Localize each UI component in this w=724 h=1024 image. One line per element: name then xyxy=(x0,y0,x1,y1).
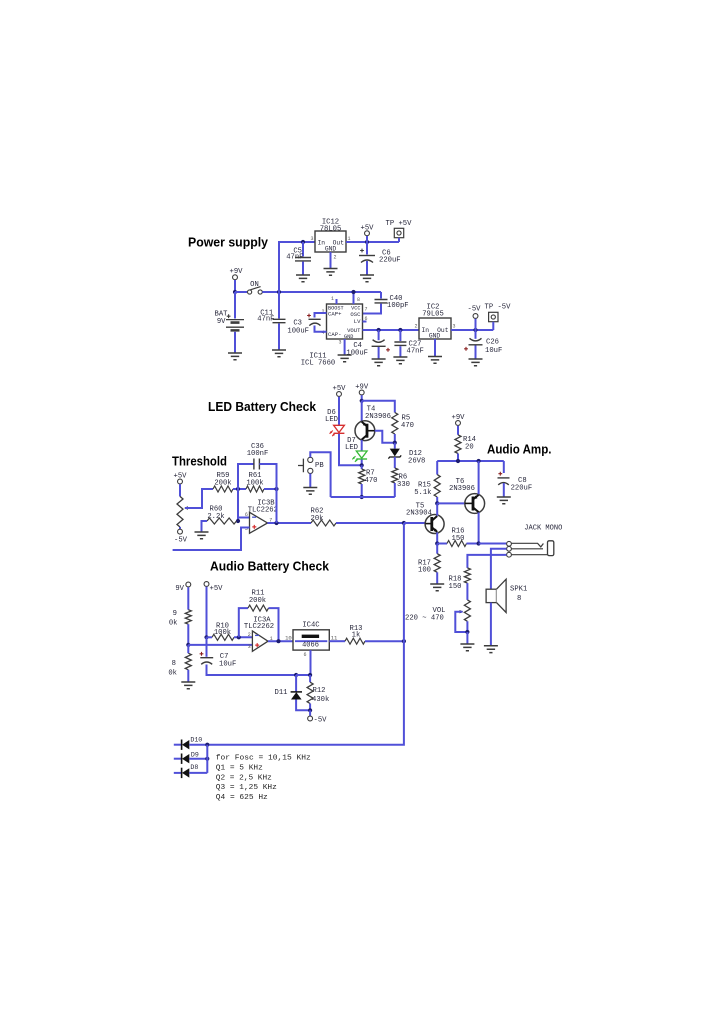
node R60 junction xyxy=(236,519,240,523)
wire +5V down to R10 node xyxy=(206,587,208,638)
wire inverting node to IC3B xyxy=(237,489,239,521)
svg-text:D9: D9 xyxy=(191,752,199,759)
wire node to jack tip xyxy=(479,543,507,545)
ground SPK1 xyxy=(484,646,498,653)
svg-text:9V: 9V xyxy=(217,318,226,326)
svg-text:0k: 0k xyxy=(169,620,178,628)
node C4 junction xyxy=(377,328,381,332)
node R12/D11 bottom xyxy=(308,708,312,712)
wire R62 to T5 base node xyxy=(336,522,404,524)
ground VOL pot xyxy=(460,644,474,651)
node R10/R11 feedback xyxy=(237,635,241,639)
ground battery xyxy=(228,353,242,360)
svg-text:C26: C26 xyxy=(486,339,499,347)
resistor R6 330 xyxy=(392,468,398,483)
svg-text:6: 6 xyxy=(365,316,368,322)
svg-text:6: 6 xyxy=(303,652,306,658)
svg-text:C3: C3 xyxy=(293,320,302,328)
wire D7 to node xyxy=(361,460,363,466)
svg-text:JACK MONO: JACK MONO xyxy=(524,525,562,533)
wire IC2 Out to -5V node xyxy=(451,329,493,331)
wire IC11 VOUT rail to IC2 In xyxy=(363,329,420,331)
ground C27 xyxy=(393,357,407,364)
svg-text:79L05: 79L05 xyxy=(422,311,444,319)
resistor R15 5.1k xyxy=(436,461,438,475)
wire feedback C36/R61 to output xyxy=(276,489,278,523)
wire D6 to node xyxy=(339,434,362,466)
svg-text:2: 2 xyxy=(248,632,251,638)
svg-text:Power supply: Power supply xyxy=(188,235,269,250)
pin 1 IC11 BOOST stub xyxy=(336,299,338,304)
wire IC3A output to IC4C xyxy=(268,640,293,642)
svg-text:LED Battery Check: LED Battery Check xyxy=(208,399,317,414)
wire PB to ground xyxy=(309,474,311,488)
zener diode D12 26V8 xyxy=(394,443,396,449)
svg-text:200k: 200k xyxy=(249,597,266,605)
wire riser to IC12 input xyxy=(279,242,315,292)
wire audio bus vertical xyxy=(207,523,404,745)
node R5/D12/T4-base xyxy=(393,441,397,445)
node pot bottom xyxy=(465,630,469,634)
resistor R7 470 xyxy=(361,465,363,469)
wire T5 collector to node xyxy=(436,503,438,515)
svg-text:470: 470 xyxy=(365,477,378,485)
wire D12 to R6 xyxy=(394,457,396,468)
svg-text:-5V: -5V xyxy=(174,537,188,545)
svg-text:3: 3 xyxy=(310,236,313,242)
svg-text:4066: 4066 xyxy=(302,642,319,650)
ground C4 xyxy=(372,359,386,366)
svg-text:CAP-: CAP- xyxy=(328,331,341,338)
svg-text:10: 10 xyxy=(285,634,292,641)
ground C6 xyxy=(360,275,374,282)
node R15/T5 collector/T6 base xyxy=(435,501,439,505)
capacitor C7 10uF xyxy=(206,637,208,657)
node T6 collector/R16/jack xyxy=(477,541,481,545)
svg-text:20: 20 xyxy=(465,444,474,452)
svg-text:100pF: 100pF xyxy=(387,302,409,310)
svg-text:220 ~ 470: 220 ~ 470 xyxy=(405,615,444,623)
svg-text:Audio Battery Check: Audio Battery Check xyxy=(210,559,330,574)
capacitor C5 47nF xyxy=(302,242,304,257)
wire jack sleeve to R18 xyxy=(467,555,506,568)
node T6 emitter/rail xyxy=(477,459,481,463)
node -5V junction xyxy=(473,328,477,332)
svg-text:2: 2 xyxy=(414,324,417,330)
svg-text:8: 8 xyxy=(172,660,176,668)
wire node to T6 base xyxy=(437,502,465,504)
svg-text:150: 150 xyxy=(449,583,462,591)
charge-pump IC11 ICL 7660 xyxy=(327,304,363,339)
resistor R14 20 xyxy=(457,426,459,435)
svg-text:GND: GND xyxy=(429,333,441,340)
node R59/R61/C36 xyxy=(236,487,240,491)
wire C40 to IC11 OSC pin 7 xyxy=(363,304,382,314)
svg-text:26V8: 26V8 xyxy=(408,458,425,466)
capacitor C27 47nF xyxy=(399,330,401,341)
wire IC2 GND to ground xyxy=(434,339,436,356)
svg-text:2.2k: 2.2k xyxy=(207,513,224,521)
wire T5 emitter down xyxy=(436,532,438,543)
ground IC12 xyxy=(324,269,338,276)
svg-text:CAP+: CAP+ xyxy=(328,311,342,318)
wire IC4C control down xyxy=(310,650,312,675)
svg-text:2N3906: 2N3906 xyxy=(449,485,475,493)
svg-text:R12: R12 xyxy=(313,687,326,695)
wire jack middle to speaker xyxy=(491,549,507,589)
capacitor C4 100uF xyxy=(378,330,380,340)
svg-text:3: 3 xyxy=(338,340,341,346)
svg-text:330: 330 xyxy=(397,481,410,489)
svg-text:470: 470 xyxy=(401,422,414,430)
svg-text:Q4 = 625 Hz: Q4 = 625 Hz xyxy=(216,794,268,802)
wire R13 to audio bus xyxy=(365,640,404,642)
svg-text:Q3 = 1,25 KHz: Q3 = 1,25 KHz xyxy=(216,784,277,792)
pin 6 IC11 LV stub xyxy=(363,321,367,323)
node bus VCC junction xyxy=(351,290,355,294)
svg-text:100k: 100k xyxy=(246,479,263,487)
potentiometer threshold xyxy=(179,484,181,496)
wire IC11 CAP+ to C3 xyxy=(315,313,327,318)
svg-text:9V: 9V xyxy=(175,585,184,593)
svg-text:220uF: 220uF xyxy=(379,257,401,265)
wire bottom bus PB to R6 xyxy=(331,496,395,498)
battery BAT 9V xyxy=(234,292,236,319)
wire divider to IC3A non-inverting xyxy=(188,644,252,646)
svg-text:100: 100 xyxy=(418,567,431,575)
wire pot to ground xyxy=(466,632,468,644)
node R13/audio bus xyxy=(402,639,406,643)
node +5V rail junction xyxy=(365,240,369,244)
wire bus: battery to switch xyxy=(235,291,247,293)
svg-text:7: 7 xyxy=(365,307,368,313)
ground PB xyxy=(303,488,317,495)
node divider mid xyxy=(186,643,190,647)
terminal +5V (audio battery check) xyxy=(204,582,209,587)
svg-text:220uF: 220uF xyxy=(511,485,533,493)
svg-text:TP +5V: TP +5V xyxy=(386,220,413,228)
wire IC3B non-inverting input stub xyxy=(173,528,250,551)
svg-text:430k: 430k xyxy=(312,696,329,704)
node R10/C7 tee xyxy=(204,635,208,639)
svg-text:5.1k: 5.1k xyxy=(414,489,431,497)
svg-text:PB: PB xyxy=(315,462,324,470)
svg-text:47nF: 47nF xyxy=(407,348,424,356)
ground C11 xyxy=(272,350,286,357)
svg-text:2N3906: 2N3906 xyxy=(365,413,391,421)
wire C7 to negative rail xyxy=(207,665,297,676)
wire C3 to IC11 CAP- xyxy=(315,326,327,332)
capacitor C26 10uF xyxy=(475,330,477,339)
svg-text:ICL 7660: ICL 7660 xyxy=(301,360,336,368)
wire +9V node to T4 emitter xyxy=(361,401,363,422)
svg-text:-5V: -5V xyxy=(314,717,328,725)
node R7 bottom bus xyxy=(360,495,364,499)
node T5 emitter/R16/R17 xyxy=(435,541,439,545)
svg-text:2: 2 xyxy=(334,255,337,261)
wire +9V rail (audio amp) xyxy=(437,460,504,462)
svg-text:-5V: -5V xyxy=(468,306,482,314)
node battery/bus junction xyxy=(233,290,237,294)
svg-text:LV: LV xyxy=(354,318,361,325)
wire bus: switch to C40 corner xyxy=(262,291,381,293)
svg-text:6: 6 xyxy=(245,512,248,518)
node D6/D7/R7 xyxy=(360,463,364,467)
svg-text:Threshold: Threshold xyxy=(172,454,227,469)
svg-text:Q1 = 5 KHz: Q1 = 5 KHz xyxy=(216,764,263,772)
wire rail to R12 top xyxy=(296,674,310,676)
svg-text:GND: GND xyxy=(325,246,337,253)
svg-text:100uF: 100uF xyxy=(346,350,368,358)
wire node to T5 base xyxy=(404,522,426,524)
ground IC2 xyxy=(428,357,442,364)
node D11 tee xyxy=(294,673,298,677)
node C27 junction xyxy=(398,328,402,332)
pin 8 IC11 VCC wire to bus xyxy=(353,292,355,304)
svg-text:10uF: 10uF xyxy=(485,347,502,355)
capacitor C6 220uF xyxy=(366,242,368,255)
ground R17 xyxy=(430,584,444,591)
svg-text:10uF: 10uF xyxy=(219,661,236,669)
wire +9V to rail node xyxy=(361,395,363,401)
ground C5 xyxy=(296,275,310,282)
node R61/C36 right xyxy=(274,487,278,491)
ground R60 xyxy=(195,532,209,539)
svg-text:D10: D10 xyxy=(190,737,202,744)
svg-text:3: 3 xyxy=(248,644,251,650)
svg-text:LED: LED xyxy=(325,416,338,424)
svg-text:8: 8 xyxy=(517,595,521,603)
svg-text:8: 8 xyxy=(357,297,360,303)
svg-text:3: 3 xyxy=(453,324,456,330)
svg-text:Q2 = 2,5 KHz: Q2 = 2,5 KHz xyxy=(216,774,272,782)
capacitor C11 47nF xyxy=(278,292,280,319)
svg-text:D11: D11 xyxy=(275,689,288,697)
svg-text:47nF: 47nF xyxy=(257,315,274,323)
ground divider xyxy=(181,682,195,689)
svg-text:+5V: +5V xyxy=(210,585,224,593)
ground C8 xyxy=(497,497,511,504)
node feedback/output xyxy=(274,521,278,525)
node C5 junction xyxy=(301,240,305,244)
svg-text:SPK1: SPK1 xyxy=(510,586,527,594)
svg-text:for Fosc = 10,15 KHz: for Fosc = 10,15 KHz xyxy=(216,755,311,763)
svg-text:1: 1 xyxy=(331,296,334,302)
node R14/rail xyxy=(456,459,460,463)
wire T4 collector to D7 xyxy=(361,440,363,451)
svg-text:TP -5V: TP -5V xyxy=(485,304,512,312)
capacitor C8 220uF xyxy=(503,461,505,473)
node R12 top xyxy=(308,673,312,677)
wire rail to R5 xyxy=(362,401,395,413)
wire IC3B output to R62 xyxy=(268,522,312,524)
capacitor C40 100pF xyxy=(380,292,382,299)
resistor R17 100 xyxy=(436,544,438,554)
wire IC12 GND to ground xyxy=(330,252,332,268)
wire speaker to ground xyxy=(490,603,492,646)
svg-text:VOUT: VOUT xyxy=(347,327,361,334)
wire +5V to D6 xyxy=(338,397,340,426)
svg-text:D8: D8 xyxy=(190,764,198,771)
node bus / C11+IC12 riser xyxy=(277,290,281,294)
svg-text:TLC2262: TLC2262 xyxy=(244,623,274,631)
node D9/bus xyxy=(205,757,209,761)
node audio bus top xyxy=(402,521,406,525)
wire diode bus vertical xyxy=(206,745,208,773)
wire T6 collector down xyxy=(478,512,480,543)
svg-text:100nF: 100nF xyxy=(247,450,269,458)
ground IC11 xyxy=(338,355,352,362)
svg-text:200k: 200k xyxy=(214,479,231,487)
svg-text:0k: 0k xyxy=(168,670,177,678)
ground C26 xyxy=(469,359,483,366)
wire IC12 Out to +5V node xyxy=(346,241,399,243)
wire T4 base to R5/D12 node xyxy=(375,431,395,443)
svg-text:9: 9 xyxy=(173,610,177,618)
svg-text:IC4C: IC4C xyxy=(302,621,320,629)
wire IC11 GND to ground xyxy=(344,339,346,355)
wire +9V terminal to bus xyxy=(234,280,236,292)
node IC3A output/feedback xyxy=(276,639,280,643)
wire pot wiper to R59 xyxy=(185,489,213,508)
terminal -5V (audio battery check) xyxy=(309,710,311,716)
wire T6 emitter to rail xyxy=(478,461,480,494)
wire PB to bus xyxy=(310,452,330,497)
wire IC4C out to R13 xyxy=(329,640,345,642)
node +9V rail tee xyxy=(360,399,364,403)
svg-text:100uF: 100uF xyxy=(287,328,309,336)
terminal -5V (threshold) xyxy=(178,529,183,534)
node D10/bus xyxy=(205,743,209,747)
resistor R5 470 xyxy=(392,413,398,435)
svg-text:Audio Amp.: Audio Amp. xyxy=(487,442,552,457)
